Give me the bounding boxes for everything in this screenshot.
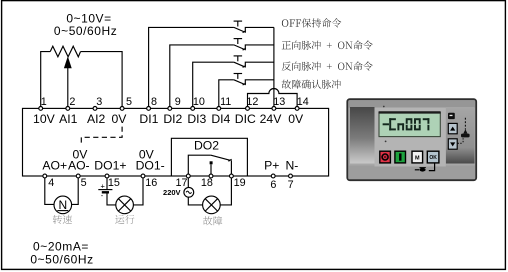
- switch S1 pushbutton actuator: [234, 20, 243, 22]
- terminal 15 (bottom): [105, 174, 109, 178]
- command label 反向脉冲 + ON命令: [282, 62, 373, 71]
- terminal 13: [272, 107, 276, 111]
- svg-text:10: 10: [193, 96, 205, 108]
- display icon: [448, 113, 455, 119]
- switch S1 blade: [234, 27, 245, 32]
- label 转速 (speed): [53, 215, 72, 224]
- svg-text:P+: P+: [264, 159, 279, 173]
- svg-text:DI4: DI4: [211, 112, 230, 126]
- AC source 220V: [184, 187, 194, 197]
- terminal 7 (bottom): [289, 174, 293, 178]
- svg-text:M: M: [415, 155, 420, 161]
- wire terminal17 to 220V source: [187, 176, 189, 187]
- DO2 contact blade to terminal19: [211, 155, 230, 160]
- press-OK hand icon: [429, 164, 435, 171]
- wire source to fault lamp: [188, 197, 202, 205]
- svg-text:AO+: AO+: [42, 159, 67, 173]
- svg-text:3: 3: [96, 96, 102, 108]
- wire meter to AO- terminal5: [72, 176, 79, 204]
- wire DI3 terminal10 riser to switch: [193, 62, 234, 108]
- svg-text:17: 17: [175, 177, 187, 189]
- terminal 2: [66, 107, 70, 111]
- terminal 6 (bottom): [271, 174, 275, 178]
- svg-text:0~50/60Hz: 0~50/60Hz: [54, 24, 117, 38]
- up arrow button: [448, 123, 457, 133]
- DO2 terminal19 riser: [230, 160, 232, 176]
- terminal 11: [217, 107, 221, 111]
- terminal block outline: [23, 108, 329, 176]
- svg-text:5: 5: [81, 177, 87, 189]
- terminal 5: [120, 107, 124, 111]
- LCD text -Cn007: [384, 119, 429, 129]
- svg-text:18: 18: [201, 177, 213, 189]
- svg-text:10V: 10V: [33, 112, 56, 126]
- svg-text:DO2: DO2: [194, 138, 219, 152]
- fault lamp H2: [203, 196, 221, 214]
- switch S2 pushbutton actuator: [234, 38, 243, 40]
- wire battery to run lamp: [107, 192, 116, 205]
- terminal 10: [191, 107, 195, 111]
- status dot: [383, 106, 385, 108]
- svg-text:7: 7: [288, 179, 294, 191]
- svg-text:AI2: AI2: [87, 112, 106, 126]
- svg-text:DI1: DI1: [139, 112, 158, 126]
- switch S1 right contact and wire to common: [245, 27, 274, 32]
- terminal 12: [246, 107, 250, 111]
- terminal 3: [93, 107, 97, 111]
- svg-text:0V: 0V: [139, 147, 155, 161]
- terminal 4 (bottom): [43, 174, 47, 178]
- svg-text:1: 1: [41, 96, 47, 108]
- switch S4 blade: [234, 80, 245, 85]
- svg-text:0~50/60Hz: 0~50/60Hz: [30, 252, 93, 266]
- svg-text:2: 2: [69, 96, 75, 108]
- svg-text:N-: N-: [285, 159, 298, 173]
- press-both hand icon: [464, 118, 466, 130]
- battery G1: [98, 189, 112, 191]
- meter P1 circle: [54, 196, 72, 214]
- terminal 1: [39, 107, 43, 111]
- switch S3 right contact and wire to common: [245, 62, 274, 67]
- command label OFF保持命令: [282, 18, 341, 27]
- run button (green): [395, 151, 406, 163]
- svg-text:5: 5: [126, 96, 132, 108]
- svg-text:24V: 24V: [260, 112, 283, 126]
- svg-text:16: 16: [145, 177, 157, 189]
- M button: [412, 151, 423, 163]
- dashed 0V net link terminal5 to AO-: [81, 127, 122, 146]
- terminal 16 (bottom): [141, 174, 145, 178]
- svg-text:19: 19: [234, 177, 246, 189]
- stop button (red): [380, 151, 391, 163]
- terminal 9: [168, 107, 172, 111]
- BOP left bezel gradient: [350, 107, 375, 164]
- svg-text:4: 4: [48, 177, 54, 189]
- wire DI1 terminal8 riser to switch: [149, 27, 234, 108]
- svg-text:13: 13: [273, 96, 285, 108]
- switch S4 right contact and wire to common: [245, 80, 274, 85]
- DO2 contact: terminal17 riser: [188, 155, 211, 176]
- svg-text:DO1+: DO1+: [94, 159, 126, 173]
- svg-text:+: +: [101, 181, 106, 190]
- svg-text:AI1: AI1: [59, 112, 78, 126]
- switch S3 pushbutton actuator: [234, 55, 243, 57]
- DO2 fixed contact and terminal18 riser: [210, 161, 213, 164]
- svg-text:11: 11: [220, 96, 231, 108]
- switch S2 right contact and wire to common: [245, 45, 274, 50]
- wire fault lamp to terminal19: [220, 176, 231, 205]
- terminal 18 (bottom): [209, 174, 213, 178]
- wire DO1+ terminal15 to battery: [106, 176, 108, 190]
- svg-text:14: 14: [297, 96, 309, 108]
- run lamp H1: [116, 196, 134, 214]
- svg-text:9: 9: [175, 96, 181, 108]
- svg-text:6: 6: [270, 179, 276, 191]
- terminal 8: [147, 107, 151, 111]
- label 运行 (run): [115, 215, 134, 224]
- svg-text:OK: OK: [429, 155, 437, 161]
- label 故障 (fault): [203, 216, 222, 225]
- command label 故障确认脉冲: [282, 80, 341, 89]
- wire DI4 terminal11 riser to switch: [219, 80, 234, 109]
- svg-text:DIC: DIC: [235, 112, 256, 126]
- wire potentiometer to 0V terminal5: [81, 52, 123, 109]
- DO2 relay box: [171, 138, 247, 176]
- terminal 19 (bottom): [230, 174, 234, 178]
- svg-text:0V: 0V: [111, 112, 127, 126]
- BOP operator panel body: [347, 99, 476, 180]
- potentiometer wiper arrow: [64, 56, 72, 68]
- terminal 5 (bottom): [76, 174, 80, 178]
- svg-text:0V: 0V: [288, 112, 304, 126]
- svg-text:12: 12: [246, 96, 258, 108]
- wire DI2 terminal9 riser to switch: [170, 45, 234, 109]
- switch S2 blade: [234, 45, 245, 50]
- wire AO+ terminal4 to meter: [45, 176, 54, 204]
- status dot 2: [385, 141, 387, 143]
- down arrow button: [448, 139, 457, 149]
- LCD display: [379, 112, 440, 136]
- svg-text:DI2: DI2: [163, 112, 182, 126]
- terminal 14: [295, 107, 299, 111]
- jumper wire DIC terminal12 to 0V terminal14 with hop: [248, 89, 298, 109]
- terminal 17 (bottom): [186, 174, 190, 178]
- switch S4 pushbutton actuator: [234, 73, 243, 75]
- svg-text:0V: 0V: [73, 147, 89, 161]
- svg-text:15: 15: [108, 177, 120, 189]
- potentiometer wiper wire to AI1 terminal2: [67, 68, 69, 108]
- switch S3 blade: [234, 62, 245, 67]
- svg-text:220V: 220V: [163, 188, 181, 197]
- potentiometer R1 zigzag: [50, 46, 80, 57]
- svg-text:8: 8: [151, 96, 157, 108]
- svg-text:DI3: DI3: [187, 112, 206, 126]
- command label 正向脉冲 + ON命令: [282, 41, 373, 50]
- BOP right key area gradient: [446, 107, 475, 164]
- wire run lamp to DO1- terminal16: [133, 176, 143, 205]
- OK button: [427, 151, 439, 163]
- wire 10V terminal1 to potentiometer: [41, 52, 51, 109]
- wire switch common to 24V terminal13: [273, 27, 275, 108]
